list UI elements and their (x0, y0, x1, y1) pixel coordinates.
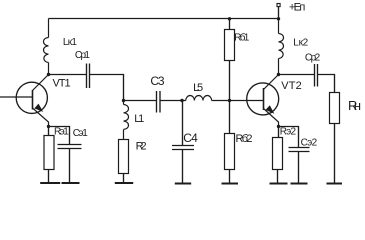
wire: C3 to L5 (160, 100, 186, 102)
wire: C4 to ground (182, 150, 184, 184)
svg-text:VT2: VT2 (281, 80, 301, 92)
wire: node G to Re2 (278, 127, 280, 138)
svg-text:Rб1: Rб1 (234, 32, 249, 44)
resistor Re1 (44, 136, 54, 170)
svg-text:L1: L1 (134, 113, 144, 125)
ground (Re2) (270, 183, 288, 185)
svg-text:Cр2: Cр2 (305, 52, 321, 63)
svg-text:+Еп: +Еп (289, 1, 305, 13)
resistor Rb2 (225, 134, 235, 170)
ground (R2) (115, 182, 133, 184)
wire: Ce1 to ground (69, 149, 71, 184)
capacitor Cp1 (87, 64, 90, 89)
wire: node D to Rb2 (229, 101, 231, 134)
inductor L1 (124, 101, 129, 140)
inductor Lk1 (44, 19, 49, 75)
wire: Ce2 to ground (298, 152, 300, 184)
capacitor C3 (157, 91, 161, 113)
wire: VT2 collector to node F (264, 75, 279, 90)
arrow: VT1 emitter (34, 104, 43, 112)
wire: Rn to ground (334, 124, 336, 184)
node: rail / +En junction (277, 17, 280, 20)
svg-text:Lк2: Lк2 (293, 38, 308, 49)
ground (C4) (175, 183, 191, 185)
capacitor Ce1 (58, 145, 82, 149)
svg-text:Cэ1: Cэ1 (73, 128, 89, 139)
ground (Rb2) (222, 183, 239, 185)
wire: C4 tap down (182, 101, 184, 146)
wire: Rb1 to node D (229, 61, 231, 101)
node E: VT1 emitter / Re1 / Ce1 (47, 125, 50, 128)
wire: rail to Rb1 (229, 19, 231, 30)
inductor Lk2 (279, 19, 284, 75)
svg-text:Rб2: Rб2 (236, 133, 253, 145)
capacitor C4 (172, 146, 194, 150)
svg-text:Cэ2: Cэ2 (301, 138, 318, 149)
arrow: VT2 emitter (266, 105, 275, 114)
resistor Re2 (273, 138, 283, 170)
node F: Lk2 / VT2 collector / Cp2 (277, 73, 280, 76)
node A: Lk1 / VT1 collector / Cp1 (47, 73, 50, 76)
resistor R2 (119, 140, 129, 174)
ground (Re1) (40, 182, 60, 184)
wire: top supply rail (49, 18, 279, 20)
transistor VT2 (circle) (247, 83, 279, 115)
svg-text:C4: C4 (183, 131, 198, 145)
wire: Re2 to ground (277, 170, 279, 184)
node C: C4 tap (180, 99, 183, 102)
wire: L5 to VT2 base (212, 100, 264, 102)
capacitor Ce2 (289, 148, 310, 152)
wire: R2 to ground (123, 174, 125, 184)
svg-text:Rэ2: Rэ2 (280, 126, 297, 137)
svg-text:Rн: Rн (348, 98, 361, 113)
node: Rb1 top on rail (228, 17, 231, 20)
wire: Re1 to ground (48, 170, 50, 184)
node D: Rb1 / Rb2 divider on base line (228, 99, 231, 102)
wire: VT1 emitter (33, 108, 49, 127)
wire: node E to Re1 (48, 127, 50, 136)
svg-text:Lк1: Lк1 (63, 37, 77, 48)
svg-text:C3: C3 (150, 74, 165, 88)
transistor VT1 (circle) (16, 82, 47, 113)
inductor L5 (186, 96, 212, 101)
wire: Cp1 to L1 node (corner) (90, 75, 124, 101)
wire: node G to Ce2 (279, 127, 299, 148)
resistor Rb1 (225, 30, 235, 61)
resistor Rn (330, 93, 340, 124)
wire: node E to Ce1 (49, 127, 70, 145)
ground (Ce1) (62, 182, 80, 184)
node G: VT2 emitter / Re2 / Ce2 (277, 125, 280, 128)
svg-text:VT1: VT1 (53, 78, 71, 90)
wire: Rb2 to ground (229, 170, 231, 184)
transistor VT2 base bar (263, 88, 265, 110)
ground (Ce2) (291, 183, 308, 185)
transistor VT1 base bar (32, 90, 34, 110)
svg-text:L5: L5 (193, 82, 203, 94)
wire: node F to Cp2 (279, 74, 315, 76)
terminal +En (open square) (277, 4, 280, 7)
wire: VT1 collector to node A (33, 75, 49, 91)
svg-text:Cр1: Cр1 (75, 50, 90, 61)
capacitor Cp2 (315, 64, 318, 87)
wire: Cp2 to Rn (corner) (318, 75, 335, 93)
wire: node B to C3 (124, 100, 157, 102)
wire: VT2 emitter (264, 109, 279, 127)
wire: node A to Cp1 (49, 74, 87, 76)
ground (Rn) (327, 183, 343, 185)
svg-text:Rэ1: Rэ1 (54, 126, 69, 137)
svg-text:R2: R2 (136, 141, 147, 153)
node B: Cp1 / L1 / C3 (122, 99, 125, 102)
wire: VT1 base lead (input) (0, 96, 33, 98)
wire: +En stub up from rail (278, 7, 280, 19)
